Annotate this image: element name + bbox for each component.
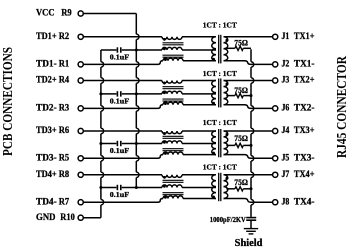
svg-text:Shield: Shield — [235, 238, 263, 249]
label TD3- R5 — [36, 154, 69, 164]
wire TX out top ch2 — [224, 80, 273, 82]
transformer T3 core — [219, 129, 221, 157]
svg-text:R1: R1 — [59, 60, 70, 70]
label Shield — [235, 238, 263, 249]
label TD3+ R6 — [36, 126, 69, 136]
svg-text:R8: R8 — [59, 170, 70, 180]
transformer T2 primary winding — [212, 81, 216, 105]
transformer T2 core — [219, 79, 221, 108]
choke CM1 bottom winding — [163, 58, 216, 61]
label C2 0.1uF — [110, 97, 130, 105]
svg-text:75Ω: 75Ω — [234, 39, 248, 48]
label C3 0.1uF — [110, 147, 130, 155]
resistor 75-ohm ch1 — [226, 46, 251, 50]
wire GND feed — [83, 217, 101, 219]
svg-text:R7: R7 — [59, 197, 70, 207]
label 1000pF/2KV — [210, 215, 246, 224]
terminal GND (R10) pad circle — [78, 215, 83, 220]
wire common termination rail (75-ohm common node) — [250, 49, 254, 217]
terminal J5 (TX3-) pad circle — [273, 156, 278, 161]
terminal J6 (TX2-) pad circle — [273, 106, 278, 111]
svg-text:J4: J4 — [282, 126, 290, 136]
terminal TD1- (R1) pad circle — [78, 62, 83, 67]
transformer T1 label 1CT:1CT — [203, 20, 237, 29]
terminal TD4+ (R8) pad circle — [78, 172, 83, 177]
terminal J4 (TX3+) pad circle — [273, 128, 278, 133]
svg-text:R9: R9 — [61, 9, 72, 19]
label J1 TX1+ — [282, 32, 315, 42]
svg-text:75Ω: 75Ω — [234, 134, 248, 143]
label TD4- R7 — [36, 197, 69, 207]
svg-text:RJ45 CONNECTOR: RJ45 CONNECTOR — [335, 55, 350, 158]
svg-text:TX4-: TX4- — [294, 197, 315, 207]
wire TD4- input — [83, 199, 163, 203]
choke CM1 top winding — [162, 37, 216, 41]
terminal TD2- (R3) pad circle — [78, 106, 83, 111]
svg-text:TX1-: TX1- — [294, 60, 315, 70]
choke CM4 bottom winding — [163, 196, 216, 199]
svg-text:J8: J8 — [282, 197, 290, 207]
capacitor C1 0.1uF plates — [117, 47, 120, 52]
svg-text:75Ω: 75Ω — [234, 86, 248, 95]
svg-text:PCB CONNECTIONS: PCB CONNECTIONS — [1, 47, 16, 156]
choke CM4 top winding — [162, 175, 216, 179]
svg-text:GND: GND — [36, 213, 56, 223]
wire TX out top ch3 — [224, 130, 273, 132]
svg-text:J5: J5 — [282, 154, 290, 164]
svg-text:J6: J6 — [282, 104, 290, 114]
svg-text:TD3-: TD3- — [36, 154, 57, 164]
svg-text:TD3+: TD3+ — [36, 126, 57, 136]
svg-text:TD1-: TD1- — [36, 60, 57, 70]
wire TD2+ input — [83, 80, 162, 82]
label C4 0.1uF — [110, 191, 130, 199]
caption PCB CONNECTIONS (rotated) — [1, 47, 16, 156]
wire TX out bottom ch4 — [224, 199, 273, 203]
wire VCC vertical rail (to center taps) — [135, 14, 139, 190]
wire TX out top ch1 — [224, 36, 273, 38]
resistor 75-ohm ch2 — [226, 94, 251, 98]
svg-text:TD2-: TD2- — [36, 104, 57, 114]
wire TX out bottom ch3 — [224, 155, 273, 159]
resistor 75-ohm ch4 — [226, 187, 251, 191]
transformer T2 label 1CT:1CT — [203, 69, 237, 78]
svg-text:TX3-: TX3- — [294, 154, 315, 164]
terminal TD4- (R7) pad circle — [78, 200, 83, 205]
terminal VCC (R9) pad circle — [78, 11, 83, 16]
wire TX out bottom ch2 — [224, 105, 273, 109]
terminal J3 (TX2+) pad circle — [273, 78, 278, 83]
svg-text:R10: R10 — [60, 213, 75, 223]
svg-text:TD4-: TD4- — [36, 197, 57, 207]
label TD1+ R2 — [36, 32, 69, 42]
transformer T4 core — [219, 173, 221, 201]
wire TD1- input — [83, 61, 163, 65]
transformer T1 core — [219, 35, 221, 64]
terminal J7 (TX4+) pad circle — [273, 172, 278, 177]
svg-text:J3: J3 — [282, 76, 290, 86]
svg-text:TD2+: TD2+ — [36, 76, 57, 86]
label J6 TX2- — [282, 104, 315, 114]
terminal J8 (TX4-) pad circle — [273, 200, 278, 205]
wire TD3+ input — [83, 130, 162, 132]
terminal J1 (TX1+) pad circle — [273, 34, 278, 39]
svg-text:R2: R2 — [59, 32, 70, 42]
svg-text:0.1uF: 0.1uF — [110, 53, 130, 61]
svg-text:0.1uF: 0.1uF — [110, 191, 130, 199]
svg-text:R4: R4 — [59, 76, 70, 86]
svg-text:J7: J7 — [282, 170, 290, 180]
terminal TD1+ (R2) pad circle — [78, 34, 83, 39]
choke CM1 middle winding — [162, 47, 182, 50]
wire TX out bottom ch1 — [224, 61, 273, 65]
choke CM2 bottom winding — [163, 102, 216, 105]
wire TD3- input — [83, 155, 163, 159]
wire center-tap row ch4 — [101, 187, 216, 189]
label TD2- R3 — [36, 104, 69, 114]
transformer T3 secondary winding — [224, 131, 229, 155]
wire center-tap row ch2 — [101, 93, 216, 95]
capacitor C3 0.1uF plates — [117, 141, 120, 146]
wire center-tap row ch3 — [101, 143, 216, 145]
transformer T4 label 1CT:1CT — [203, 163, 237, 172]
label J7 TX4+ — [282, 170, 315, 180]
transformer T3 primary winding — [212, 131, 216, 155]
svg-text:TX1+: TX1+ — [294, 32, 315, 42]
transformer T2 secondary winding — [224, 81, 229, 105]
svg-text:R6: R6 — [59, 126, 70, 136]
wire center-tap row ch1 — [101, 49, 216, 51]
wire TD4+ input — [83, 174, 162, 176]
caption RJ45 CONNECTOR (rotated) — [335, 55, 350, 158]
choke CM4 middle winding — [162, 185, 182, 188]
choke CM3 bottom winding — [163, 152, 216, 155]
label TD4+ R8 — [36, 170, 69, 180]
svg-text:TX2+: TX2+ — [294, 76, 315, 86]
wire VCC feed — [83, 13, 136, 15]
choke CM1 core — [163, 43, 184, 57]
label J4 TX3+ — [282, 126, 315, 136]
label C1 0.1uF — [110, 53, 130, 61]
label J5 TX3- — [282, 154, 315, 164]
terminal TD3+ (R6) pad circle — [78, 128, 83, 133]
transformer T3 label 1CT:1CT — [203, 118, 237, 127]
svg-text:R3: R3 — [59, 104, 70, 114]
label J2 TX1- — [282, 60, 315, 70]
label TD1- R1 — [36, 60, 69, 70]
transformer T1 primary winding — [212, 37, 216, 61]
wire GND vertical rail (to 0.1uF capacitors) — [99, 50, 103, 218]
ground shield symbol — [244, 229, 258, 234]
terminal J2 (TX1-) pad circle — [273, 62, 278, 67]
choke CM3 core — [163, 136, 184, 150]
wire TD2- input — [83, 105, 163, 109]
svg-text:0.1uF: 0.1uF — [110, 147, 130, 155]
svg-text:TX3+: TX3+ — [294, 126, 315, 136]
label 75-ohm ch2 — [234, 86, 248, 95]
choke CM2 core — [163, 87, 184, 101]
label 75-ohm ch1 — [234, 39, 248, 48]
svg-text:1CT : 1CT: 1CT : 1CT — [203, 69, 237, 78]
choke CM2 top winding — [162, 81, 216, 85]
label J8 TX4- — [282, 197, 315, 207]
svg-text:1CT : 1CT: 1CT : 1CT — [203, 20, 237, 29]
choke CM3 middle winding — [162, 141, 182, 144]
svg-text:TX2-: TX2- — [294, 104, 315, 114]
resistor 75-ohm ch3 — [226, 143, 251, 147]
label 75-ohm ch3 — [234, 134, 248, 143]
svg-text:1000pF/2KV: 1000pF/2KV — [210, 215, 246, 224]
svg-text:TX4+: TX4+ — [294, 170, 315, 180]
terminal TD3- (R5) pad circle — [78, 156, 83, 161]
label 75-ohm ch4 — [234, 178, 248, 187]
capacitor 1000pF/2KV plates — [246, 218, 256, 229]
svg-text:VCC: VCC — [36, 9, 55, 19]
label GND R10 — [36, 213, 75, 223]
choke CM4 core — [163, 180, 184, 194]
svg-text:0.1uF: 0.1uF — [110, 97, 130, 105]
svg-text:TD1+: TD1+ — [36, 32, 57, 42]
svg-text:75Ω: 75Ω — [234, 178, 248, 187]
label J3 TX2+ — [282, 76, 315, 86]
terminal TD2+ (R4) pad circle — [78, 78, 83, 83]
choke CM2 middle winding — [162, 91, 182, 94]
capacitor C2 0.1uF plates — [117, 91, 120, 96]
transformer T1 secondary winding — [224, 37, 229, 61]
transformer T4 secondary winding — [224, 175, 229, 199]
wire TD1+ input — [83, 36, 162, 38]
capacitor C4 0.1uF plates — [117, 185, 120, 190]
svg-text:R5: R5 — [59, 154, 70, 164]
transformer T4 primary winding — [212, 175, 216, 199]
svg-text:TD4+: TD4+ — [36, 170, 57, 180]
svg-text:1CT : 1CT: 1CT : 1CT — [203, 163, 237, 172]
svg-text:1CT : 1CT: 1CT : 1CT — [203, 118, 237, 127]
choke CM3 top winding — [162, 131, 216, 135]
label VCC R9 — [36, 9, 72, 19]
wire TX out top ch4 — [224, 174, 273, 176]
label TD2+ R4 — [36, 76, 69, 86]
svg-text:J1: J1 — [282, 32, 290, 42]
svg-text:J2: J2 — [282, 60, 290, 70]
